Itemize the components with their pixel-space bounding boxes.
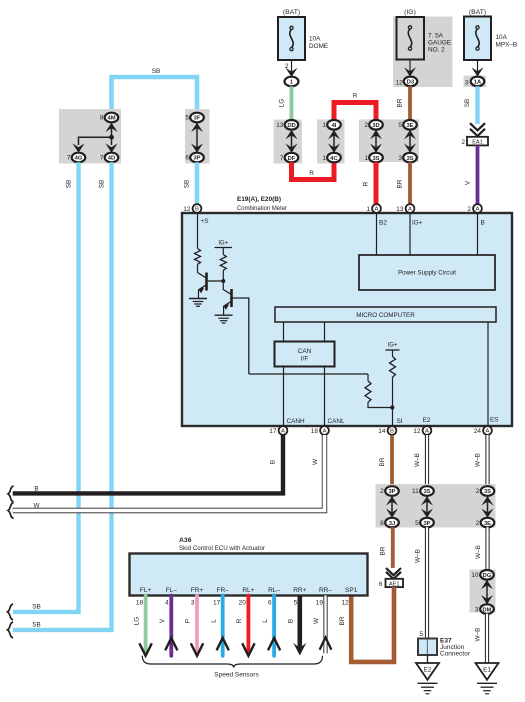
wire V: EA1 to meter pin 2	[476, 145, 480, 203]
ground E2	[416, 663, 439, 694]
IG+ rail bar	[215, 247, 233, 249]
svg-text:A: A	[476, 207, 480, 213]
gray connector box 3P/3J 3S/3P 3S/3E	[376, 484, 496, 528]
svg-text:SB: SB	[152, 68, 161, 75]
svg-text:A: A	[323, 429, 327, 435]
svg-text:SB: SB	[32, 604, 41, 611]
svg-text:FL–: FL–	[166, 587, 178, 594]
svg-text:R: R	[363, 181, 370, 186]
wire SB: 1A down to EA1	[475, 86, 479, 124]
svg-text:GAUGE: GAUGE	[428, 40, 451, 47]
svg-text:(BAT): (BAT)	[469, 9, 486, 16]
svg-text:BR: BR	[397, 98, 404, 107]
svg-text:SB: SB	[464, 99, 471, 108]
wire R2 to junction	[222, 270, 224, 290]
wire SB: 3P to meter pin 12	[195, 162, 200, 203]
wire Q2 collector right and down	[232, 298, 249, 374]
svg-text:W–B: W–B	[475, 453, 482, 467]
svg-text:ES: ES	[490, 417, 499, 424]
svg-text:E2: E2	[424, 667, 432, 674]
svg-text:BR: BR	[397, 179, 404, 188]
svg-text:3S: 3S	[423, 489, 430, 495]
svg-text:14: 14	[378, 428, 386, 435]
svg-text:MPX–B: MPX–B	[496, 42, 518, 49]
solid red arrow down at RL+	[242, 643, 254, 656]
svg-text:DD: DD	[287, 123, 295, 129]
wire 3S to 3E	[487, 497, 489, 518]
svg-text:5: 5	[294, 600, 298, 607]
svg-text:1: 1	[366, 206, 370, 213]
svg-text:W–B: W–B	[414, 453, 421, 467]
gray connector box 3D/3S/3E/3S	[359, 120, 419, 163]
wire junction branch to 4G	[79, 137, 112, 145]
wire BR: 3S to meter pin 13	[408, 162, 412, 203]
wire resistor to Q1	[197, 264, 199, 272]
svg-text:1: 1	[322, 122, 326, 129]
transistor Q1	[198, 273, 207, 299]
svg-text:A: A	[408, 207, 412, 213]
wire micro to ES pin	[487, 322, 489, 426]
wire fuse MPX-B to connector 1A	[477, 60, 479, 75]
svg-text:L: L	[262, 619, 269, 623]
svg-text:SB: SB	[32, 622, 41, 629]
wire W-B: DM to ground E1	[485, 614, 489, 663]
wire 3E to 3S	[409, 130, 411, 152]
brace wire SB 2 continues	[8, 622, 14, 638]
fuse block: MPX-B	[464, 9, 518, 87]
svg-text:3E: 3E	[484, 521, 491, 527]
combination meter E19(A) E20(B) box	[182, 213, 512, 426]
svg-text:3: 3	[398, 155, 402, 162]
svg-text:W–B: W–B	[415, 549, 422, 563]
svg-text:R: R	[353, 93, 358, 100]
svg-text:EA1: EA1	[472, 140, 483, 146]
svg-text:3P: 3P	[193, 156, 200, 162]
wire micro to CAN I/F left	[283, 322, 285, 342]
connector D3	[404, 77, 418, 87]
svg-text:B: B	[270, 460, 277, 464]
svg-text:R: R	[236, 618, 243, 623]
wire rail to resistor R2	[222, 248, 224, 255]
svg-text:(IG): (IG)	[404, 9, 416, 16]
svg-text:W: W	[313, 617, 320, 624]
wire B2 pin to power supply	[376, 213, 378, 255]
wire B pin to power supply	[477, 213, 479, 255]
ground for Q2	[215, 315, 233, 323]
svg-text:4C: 4C	[330, 156, 338, 162]
wire W-B: ES pin down	[485, 435, 489, 487]
wire 3D to 3S	[375, 130, 377, 152]
svg-text:LG: LG	[133, 617, 140, 626]
svg-text:5: 5	[398, 122, 402, 129]
svg-text:B: B	[481, 220, 485, 227]
svg-text:B: B	[195, 207, 199, 213]
wire R: 3S to meter pin 1	[374, 162, 379, 203]
svg-text:E1: E1	[483, 667, 491, 674]
svg-text:B: B	[34, 486, 38, 493]
wire R: 4I up over to 3D	[334, 103, 376, 121]
svg-text:DF: DF	[288, 156, 296, 162]
svg-text:6: 6	[379, 581, 383, 588]
svg-text:5: 5	[419, 631, 423, 638]
resistor R3	[367, 374, 369, 381]
gray connector box 4M/4G/4D	[59, 109, 121, 164]
svg-text:5: 5	[185, 115, 189, 122]
wire W-B: 3E to DG	[485, 527, 489, 570]
svg-text:SB: SB	[99, 180, 106, 189]
wire W-B: 3P to E37	[425, 527, 429, 638]
svg-text:Speed Sensors: Speed Sensors	[214, 672, 259, 679]
wire DG to DM	[486, 580, 488, 604]
wire 3P to 3J	[391, 497, 393, 518]
svg-text:BR: BR	[380, 546, 387, 555]
double chevron into EA1	[470, 123, 485, 130]
svg-text:SB: SB	[66, 180, 73, 189]
wire W-B: E2 pin down	[425, 435, 429, 487]
svg-text:(BAT): (BAT)	[283, 9, 300, 16]
svg-text:3E: 3E	[406, 123, 413, 129]
svg-text:12: 12	[413, 428, 421, 435]
svg-text:7: 7	[100, 155, 104, 162]
svg-text:A36: A36	[179, 537, 192, 544]
wire R4 to SI pin	[392, 377, 394, 426]
wire micro to CAN I/F right	[324, 322, 326, 342]
svg-text:A: A	[375, 207, 379, 213]
CAN I/F box	[275, 342, 335, 367]
junction connector E37	[418, 639, 437, 656]
svg-text:+S: +S	[201, 218, 209, 225]
gray connector box 4I/4C	[317, 120, 345, 164]
svg-text:2: 2	[461, 139, 465, 146]
ground E1	[476, 663, 499, 694]
brace wire B continues	[8, 486, 14, 502]
svg-text:SI: SI	[397, 418, 403, 425]
arrow down into 4D	[106, 143, 118, 152]
svg-text:CANH: CANH	[287, 418, 305, 425]
wire B: ECU pin RR+	[297, 596, 302, 650]
svg-text:CAN: CAN	[298, 348, 312, 355]
wire LG: ECU pin FL+	[144, 596, 148, 654]
svg-text:3: 3	[191, 600, 195, 607]
resistor R2	[220, 255, 226, 271]
wire rail to resistor R4	[392, 350, 394, 357]
solid chevron up at FL-	[165, 638, 177, 650]
svg-text:A: A	[486, 429, 490, 435]
svg-text:18: 18	[136, 600, 144, 607]
svg-text:IG+: IG+	[388, 343, 398, 349]
svg-text:B: B	[288, 619, 295, 623]
wire L: ECU pin FR-	[221, 596, 225, 656]
svg-text:3J: 3J	[389, 521, 395, 527]
svg-text:D3: D3	[407, 80, 415, 86]
wire SB: 4G down to left edge	[13, 162, 79, 612]
wire 3S to 3P	[426, 497, 428, 518]
wire 4M to junction	[111, 123, 113, 137]
svg-text:2: 2	[380, 488, 384, 495]
arrow up into 4M	[106, 123, 118, 132]
svg-text:12: 12	[396, 80, 404, 87]
wire CAN I/F to CANH pin	[283, 367, 285, 427]
svg-text:13: 13	[276, 122, 284, 129]
svg-text:8: 8	[380, 520, 384, 527]
wire BR: SI pin to 3P	[390, 435, 394, 487]
svg-text:FR+: FR+	[191, 587, 204, 594]
svg-text:24: 24	[474, 428, 482, 435]
connector 1	[285, 77, 299, 87]
IG+ rail bar 2	[386, 349, 400, 351]
wire R: DF down around to 4C	[292, 162, 335, 179]
junction dot base node	[221, 279, 225, 283]
svg-text:Power Supply Circuit: Power Supply Circuit	[398, 270, 456, 277]
svg-text:Connector: Connector	[440, 651, 471, 658]
svg-text:RR+: RR+	[293, 587, 306, 594]
svg-text:RR–: RR–	[319, 587, 332, 594]
svg-text:3S: 3S	[372, 156, 379, 162]
wire V: ECU pin FL-	[169, 596, 173, 656]
fuse block: DOME	[278, 9, 328, 86]
wire R: ECU pin RL+	[246, 596, 250, 654]
wire Q1 base to node	[208, 280, 224, 282]
svg-text:3S: 3S	[406, 156, 413, 162]
svg-text:DG: DG	[483, 573, 492, 579]
svg-text:E19(A), E20(B): E19(A), E20(B)	[237, 196, 281, 203]
svg-text:W: W	[33, 503, 40, 510]
Power Supply Circuit box	[359, 255, 495, 290]
svg-text:E2: E2	[423, 417, 431, 424]
wire 4I to 4C	[333, 130, 335, 152]
svg-text:IG+: IG+	[412, 220, 423, 227]
svg-text:10A: 10A	[309, 36, 321, 43]
svg-text:FR–: FR–	[217, 587, 230, 594]
svg-text:7: 7	[67, 155, 71, 162]
svg-text:12: 12	[341, 600, 349, 607]
svg-text:1: 1	[364, 155, 368, 162]
svg-text:6: 6	[268, 600, 272, 607]
svg-text:12: 12	[183, 206, 191, 213]
solid chevron up at RL-	[268, 638, 280, 650]
wire W: CANL to left edge	[13, 435, 325, 511]
svg-text:4I: 4I	[332, 123, 337, 129]
svg-text:Skid Control ECU with Actuator: Skid Control ECU with Actuator	[179, 545, 266, 552]
wire CAN I/F to CANL pin	[324, 367, 326, 427]
svg-text:3D: 3D	[372, 123, 379, 129]
svg-text:19: 19	[316, 600, 324, 607]
svg-text:SB: SB	[184, 180, 191, 189]
wire SB: 4D down to left edge	[13, 162, 112, 630]
svg-text:7. 5A: 7. 5A	[428, 33, 444, 40]
MICRO COMPUTER box	[275, 307, 496, 322]
svg-text:CANL: CANL	[328, 418, 345, 425]
wire W: ECU pin RR-	[323, 596, 327, 654]
wire fuse DOME to connector 1	[291, 60, 293, 75]
fuse block: GAUGE NO.2	[393, 9, 453, 87]
svg-text:LG: LG	[279, 99, 286, 108]
fuse 7.5A GAUGE NO.2	[397, 17, 425, 60]
svg-text:7: 7	[280, 155, 284, 162]
svg-text:3F: 3F	[194, 116, 201, 122]
resistor R4	[390, 357, 396, 378]
svg-text:3P: 3P	[423, 521, 430, 527]
svg-text:17: 17	[213, 600, 221, 607]
svg-text:V: V	[159, 618, 166, 623]
svg-text:BR: BR	[379, 457, 386, 466]
svg-text:V: V	[465, 180, 472, 185]
svg-text:RL–: RL–	[268, 587, 280, 594]
speed sensors brace	[142, 656, 322, 668]
svg-text:NO. 2: NO. 2	[428, 47, 445, 54]
svg-text:A: A	[281, 429, 285, 435]
svg-text:11: 11	[412, 488, 419, 495]
svg-text:10: 10	[471, 572, 479, 579]
svg-text:RL+: RL+	[242, 587, 254, 594]
gray connector box 3F/3P	[185, 109, 210, 164]
connector 1A	[471, 77, 485, 87]
open arrow down at FR+	[191, 643, 203, 656]
svg-text:AE1: AE1	[389, 581, 400, 587]
svg-text:W–B: W–B	[475, 628, 482, 642]
wire R3 to SI node	[368, 402, 392, 407]
svg-text:B2: B2	[379, 220, 387, 227]
open chevron up at RR-	[320, 637, 332, 649]
svg-text:FL+: FL+	[140, 587, 152, 594]
ground for Q1	[189, 299, 207, 307]
brace wire SB 1 continues	[8, 604, 14, 620]
svg-text:IG+: IG+	[218, 241, 228, 247]
svg-text:A: A	[425, 429, 429, 435]
svg-text:4: 4	[165, 600, 169, 607]
svg-text:P: P	[185, 619, 192, 623]
svg-text:8: 8	[100, 115, 104, 122]
svg-text:W: W	[312, 458, 319, 465]
svg-text:DM: DM	[482, 607, 491, 613]
svg-text:20: 20	[239, 600, 247, 607]
wire L: ECU pin RL-	[272, 596, 276, 656]
fuse 10A MPX-B	[464, 17, 491, 61]
svg-text:1: 1	[322, 155, 326, 162]
wire E37 to ground E2	[427, 655, 429, 663]
svg-text:6: 6	[185, 155, 189, 162]
svg-text:17: 17	[269, 428, 277, 435]
gray connector box DG/DM	[470, 570, 496, 614]
svg-text:R: R	[309, 170, 314, 177]
resistor R1	[195, 249, 201, 265]
wire SB bus: 4M over to 3F	[112, 77, 198, 121]
svg-text:BR: BR	[339, 616, 346, 625]
wire Q2 output across to resistor R3	[249, 373, 368, 375]
svg-text:3: 3	[475, 606, 479, 613]
double chevron into AE1	[386, 568, 401, 575]
wire IG+ pin to power supply	[409, 213, 411, 255]
wire +S pin to resistor	[197, 213, 199, 249]
svg-text:MICRO COMPUTER: MICRO COMPUTER	[356, 312, 415, 319]
svg-text:3: 3	[465, 80, 469, 87]
wire 3F to 3P	[196, 123, 198, 152]
svg-text:3S: 3S	[484, 489, 491, 495]
svg-text:4D: 4D	[108, 156, 115, 162]
svg-text:Combination Meter: Combination Meter	[237, 205, 288, 212]
skid control ECU A36 box	[130, 554, 368, 596]
wire BR: 3J to AE1	[391, 527, 395, 568]
wire BR: D3 to 3E	[408, 86, 412, 120]
svg-text:W–B: W–B	[475, 545, 482, 559]
gray panel behind GAUGE fuse	[393, 17, 453, 88]
svg-text:B: B	[390, 429, 394, 435]
svg-text:5: 5	[415, 520, 419, 527]
wire BR: AE1 down around to SP1	[351, 587, 394, 662]
fuse 10A DOME	[278, 17, 305, 60]
solid black arrow down at RR+	[293, 643, 306, 656]
wire junction to 4D	[111, 137, 113, 145]
svg-text:13: 13	[396, 206, 404, 213]
svg-text:2: 2	[364, 122, 368, 129]
svg-text:18: 18	[311, 428, 319, 435]
svg-text:1A: 1A	[474, 80, 482, 86]
svg-text:SP1: SP1	[345, 587, 358, 594]
wire P: ECU pin FR+	[195, 596, 199, 654]
gray panel behind 1A	[464, 76, 487, 88]
wire fuse GAUGE to connector D3	[409, 60, 411, 75]
junction dot SI node	[390, 405, 394, 409]
wire B: CANH to left edge	[13, 435, 283, 493]
wire DD to DF	[291, 130, 293, 152]
solid chevron up at FR-	[217, 638, 229, 650]
svg-text:I/F: I/F	[301, 356, 309, 363]
brace wire W continues	[8, 503, 14, 519]
transistor Q2	[223, 289, 231, 315]
svg-text:2: 2	[467, 206, 471, 213]
svg-text:1: 1	[290, 80, 293, 86]
svg-text:DOME: DOME	[309, 43, 328, 50]
gray connector box DD/DF	[274, 120, 303, 164]
open arrow down at FL+	[139, 643, 151, 656]
svg-text:2: 2	[476, 488, 480, 495]
svg-text:L: L	[210, 619, 217, 623]
arrow down into 4G	[73, 143, 85, 152]
svg-text:3P: 3P	[388, 489, 395, 495]
junction dot	[109, 135, 114, 140]
svg-text:2: 2	[476, 520, 480, 527]
wire LG: connector 1 to DD	[290, 86, 294, 120]
svg-text:4G: 4G	[75, 156, 83, 162]
svg-text:4M: 4M	[107, 116, 115, 122]
svg-text:10A: 10A	[496, 34, 508, 41]
